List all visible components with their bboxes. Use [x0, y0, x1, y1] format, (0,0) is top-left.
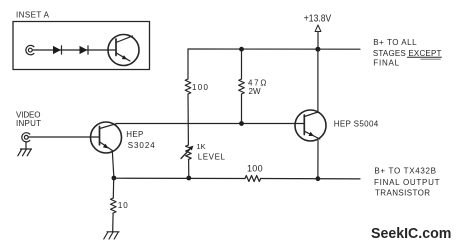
- svg-text:2W: 2W: [249, 87, 262, 96]
- node 47 ohm bottom junction: [239, 121, 244, 126]
- svg-text:TRANSISTOR: TRANSISTOR: [375, 188, 430, 197]
- resistor 100 (base feed): [185, 79, 191, 94]
- svg-text:100: 100: [192, 83, 209, 92]
- svg-text:SeekIC.com: SeekIC.com: [371, 226, 451, 242]
- node Q2 emitter junction: [316, 176, 321, 181]
- wire B+ rail down to resistor 100: [187, 49, 189, 79]
- wire arrow to B+ rail: [317, 32, 319, 50]
- transistor Q2 HEP S5004: [295, 110, 326, 141]
- inset input connector J (coax jack): [26, 45, 34, 54]
- wire pot bottom to rail: [188, 160, 190, 179]
- svg-text:1K: 1K: [196, 142, 205, 151]
- svg-text:VIDEO: VIDEO: [16, 110, 41, 119]
- resistor 10 (emitter): [111, 198, 117, 213]
- top B+ rail wire: [188, 48, 360, 50]
- inset transistor Q (NPN in circle): [108, 35, 139, 66]
- resistor 100 (bottom rail, horizontal): [245, 176, 261, 182]
- svg-text:B+ TO TX432B: B+ TO TX432B: [374, 167, 436, 176]
- wire Q1 collector to Q2 base (middle rail): [117, 123, 304, 125]
- inset box frame: [13, 22, 150, 70]
- svg-text:+13.8V: +13.8V: [304, 13, 332, 24]
- inset diode CR2: [80, 46, 89, 54]
- svg-text:INPUT: INPUT: [16, 119, 41, 128]
- bottom rail wire: [114, 177, 245, 179]
- svg-text:FINAL: FINAL: [373, 59, 399, 68]
- ground (video input): [18, 149, 32, 156]
- wire jack to ground: [25, 142, 27, 149]
- node 1K pot bottom junction: [186, 176, 191, 181]
- svg-text:HEP S5004: HEP S5004: [334, 120, 379, 129]
- svg-text:10: 10: [118, 201, 128, 210]
- supply arrow +13.8V: [315, 25, 321, 32]
- wire Q2 emitter down to bottom rail: [317, 141, 319, 179]
- wire B+ rail down to Q2 collector: [317, 49, 319, 112]
- svg-text:INSET A: INSET A: [16, 11, 50, 20]
- wire 47 ohm down to middle rail: [241, 95, 243, 124]
- svg-text:FINAL OUTPUT: FINAL OUTPUT: [374, 178, 440, 187]
- wire resistor 10 to ground: [112, 213, 114, 232]
- wire resistor 100 down across middle rail to pot: [187, 95, 189, 146]
- wire junction down to resistor 10: [112, 178, 114, 198]
- node Q1 emitter junction: [112, 176, 117, 181]
- node B+ rail / collector junction: [315, 47, 320, 52]
- ground (emitter resistor): [104, 232, 119, 239]
- svg-text:HEP: HEP: [126, 130, 143, 139]
- inset diode CR1: [53, 46, 62, 54]
- svg-text:100: 100: [247, 164, 263, 174]
- svg-text:LEVEL: LEVEL: [198, 153, 226, 162]
- inset wire from jack to transistor base: [33, 49, 116, 51]
- svg-text:S3024: S3024: [128, 141, 156, 150]
- transistor Q1 HEP S3024: [91, 122, 122, 153]
- video input connector (coax jack): [22, 133, 30, 142]
- potentiometer 1K LEVEL: [181, 145, 193, 159]
- wire Q1 emitter down to bottom rail: [112, 151, 114, 179]
- wire resistor 100 to Q2 emitter node and out to the right: [261, 178, 360, 180]
- node 47 ohm top junction: [239, 47, 244, 52]
- wire B+ rail down to 47 ohm: [241, 49, 243, 79]
- wire jack to Q1 base: [29, 136, 100, 138]
- resistor 47 ohm 2W: [239, 79, 245, 94]
- svg-text:STAGES EXCEPT: STAGES EXCEPT: [373, 49, 442, 58]
- svg-text:B+ TO ALL: B+ TO ALL: [373, 38, 417, 47]
